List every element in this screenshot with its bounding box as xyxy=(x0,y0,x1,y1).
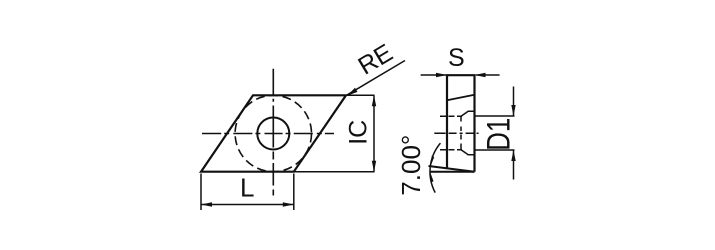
arc arrow upper (points to slant line) xyxy=(431,155,435,166)
label 7.00 degrees (rotated) xyxy=(396,135,426,196)
countersink bottom slant xyxy=(461,150,475,155)
L dimension line xyxy=(201,204,294,206)
hole circle xyxy=(257,118,289,150)
IC arrow down xyxy=(372,161,376,172)
horizontal centerline (front view) xyxy=(202,133,334,135)
vertical centerline (front view) xyxy=(272,69,274,196)
svg-text:IC: IC xyxy=(344,120,372,145)
side view body outline xyxy=(447,75,475,172)
side view bottom reference line (horizontal) xyxy=(430,171,475,173)
D1 arrow pointing down xyxy=(511,105,515,116)
insert body (rhombus, front view) xyxy=(201,95,346,171)
side view horizontal centerline xyxy=(434,132,478,134)
7 degree angular dimension arc xyxy=(430,143,440,193)
S arrow pointing right at left face xyxy=(436,73,447,77)
IC top extension line xyxy=(346,94,375,96)
arc arrow lower (points to horizontal line) xyxy=(430,172,433,183)
svg-text:7.00°: 7.00° xyxy=(396,135,426,196)
svg-text:RE: RE xyxy=(353,39,397,81)
D1 extension line top xyxy=(475,115,515,117)
label IC (rotated) xyxy=(344,120,372,145)
svg-text:L: L xyxy=(240,172,254,202)
IC bottom extension line xyxy=(294,171,375,173)
hole hidden line bottom xyxy=(440,149,462,151)
countersink top slant xyxy=(461,111,475,116)
hole hidden line top xyxy=(440,115,462,117)
D1 arrow pointing up xyxy=(511,150,515,161)
inscribed circle (dashed) xyxy=(235,95,311,171)
IC dimension line xyxy=(373,95,375,171)
side view bottom 7-degree slant line xyxy=(429,166,475,172)
S dimension line left part xyxy=(421,74,446,76)
RE leader arrowhead xyxy=(347,88,358,96)
svg-text:S: S xyxy=(448,44,465,72)
IC arrow up xyxy=(372,95,376,106)
S arrow pointing left at right face xyxy=(475,73,486,77)
L arrow right xyxy=(283,202,294,206)
side view vertical hole centerline xyxy=(460,116,462,150)
svg-text:D1: D1 xyxy=(480,118,516,151)
D1 dimension line upper xyxy=(513,87,515,117)
RE leader line xyxy=(347,61,406,96)
D1 extension line bottom xyxy=(475,149,515,151)
S dimension line right part xyxy=(476,74,500,76)
side view top face line (slanted) xyxy=(447,95,475,101)
L dimension extension line right xyxy=(293,174,295,211)
D1 dimension line lower xyxy=(513,150,515,180)
L dimension extension line left xyxy=(200,174,202,211)
label RE (rotated) xyxy=(353,39,397,81)
L arrow left xyxy=(201,202,212,206)
label D1 (rotated) xyxy=(480,118,516,151)
